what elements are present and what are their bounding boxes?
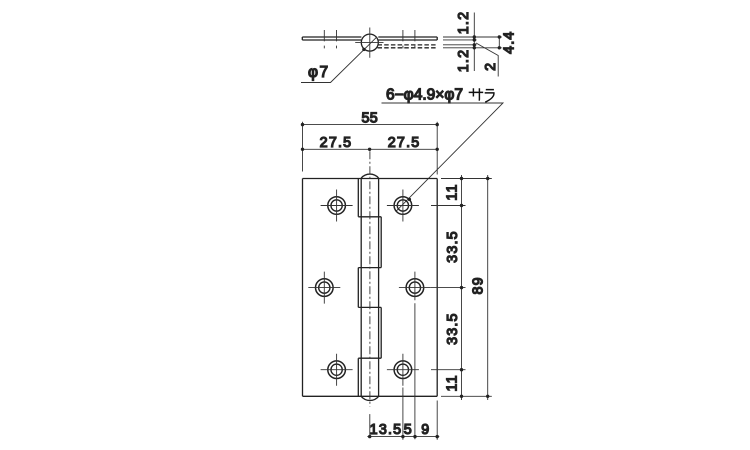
- text 27.5 right: [388, 135, 421, 151]
- dimension line 4.4: [498, 37, 500, 48]
- bottom extension mid hole col: [414, 303, 416, 439]
- svg-text:13.5: 13.5: [370, 422, 403, 438]
- knuckle right strips: [380, 217, 382, 358]
- katakana sa: [469, 88, 484, 100]
- dots 27.5: [301, 148, 439, 151]
- chain dots: [460, 177, 463, 398]
- text 33.5 upper: [445, 230, 461, 263]
- text 9: [421, 422, 430, 438]
- svg-text:1.2: 1.2: [456, 11, 472, 34]
- knuckle joints: [358, 217, 381, 358]
- crosshair bottom-left: [321, 354, 353, 386]
- dimension line 89: [487, 175, 489, 400]
- hole bottom-left: [328, 361, 346, 379]
- top view: left leaf top surface: [302, 37, 361, 40]
- svg-text:5: 5: [404, 422, 413, 438]
- svg-text:1.2: 1.2: [456, 49, 472, 72]
- dimension line 55: [303, 124, 438, 126]
- hole bottom-right: [394, 361, 412, 379]
- top view: knuckle centermark cross: [355, 28, 383, 58]
- bottom dimension line: [367, 436, 439, 438]
- width dim extension right: [436, 122, 438, 175]
- knuckle barrel bottom cap: [361, 396, 378, 400]
- crosshair mid-right: [399, 272, 431, 301]
- crosshair bottom-right: [387, 354, 419, 386]
- leader for dim 2: [476, 43, 498, 77]
- svg-text:6−φ4.9×φ7: 6−φ4.9×φ7: [386, 87, 463, 104]
- top view: right leaf top surface: [378, 37, 437, 40]
- bottom dots: [368, 435, 439, 438]
- dimension dots 4.4: [498, 35, 501, 49]
- front view: plate outline: [303, 179, 438, 397]
- svg-text:11: 11: [444, 183, 460, 200]
- crosshair top-right: [387, 190, 419, 222]
- text 1.2 upper: [456, 11, 472, 34]
- top view: hidden lower leaf (dashed): [378, 45, 438, 48]
- hole mid-left: [316, 279, 334, 297]
- svg-text:4.4: 4.4: [502, 30, 518, 53]
- svg-text:27.5: 27.5: [320, 135, 353, 151]
- text 89: [471, 276, 487, 294]
- text 33.5 lower: [445, 312, 461, 345]
- text 13.5: [370, 422, 403, 438]
- top view: knuckle circle: [361, 34, 378, 51]
- katakana ra: [485, 90, 494, 103]
- leader dot phi7: [362, 48, 365, 51]
- top view: hole center ticks: [324, 30, 415, 48]
- right extensions rows: [431, 179, 492, 397]
- hole mid-right: [406, 279, 424, 297]
- leader phi7: [301, 37, 377, 83]
- chain dimension line 11/33.5: [461, 175, 463, 400]
- pin centerline bottom extension: [369, 414, 371, 437]
- text 4.4: [502, 30, 518, 53]
- svg-text:33.5: 33.5: [445, 312, 461, 345]
- knuckle left strips: [357, 179, 359, 397]
- text 55: [361, 110, 378, 126]
- pin centerline: [369, 151, 371, 406]
- text 11 bottom: [444, 374, 460, 391]
- leader dot hole spec: [408, 198, 411, 201]
- bottom extension right edge: [436, 401, 438, 440]
- text 5: [404, 422, 413, 438]
- dots 89: [486, 177, 489, 398]
- text 2: [483, 62, 499, 71]
- svg-text:11: 11: [444, 374, 460, 391]
- label phi7: [308, 64, 330, 81]
- text 1.2 lower: [456, 49, 472, 72]
- svg-text:27.5: 27.5: [388, 135, 421, 151]
- svg-text:φ7: φ7: [308, 64, 330, 81]
- dimension dots 1.2: [473, 35, 476, 49]
- bottom extension hole col right: [402, 388, 404, 440]
- label 6-phi4.9x phi7 sara: [386, 87, 463, 104]
- svg-text:33.5: 33.5: [445, 230, 461, 263]
- knuckle barrel top cap: [361, 174, 378, 178]
- knuckle barrel sides: [361, 178, 378, 397]
- hole top-left: [328, 197, 346, 215]
- hole top-right: [394, 197, 412, 215]
- svg-text:55: 55: [361, 110, 378, 126]
- dots 55: [301, 123, 439, 126]
- thickness extension lines: [443, 37, 502, 48]
- text 11 top: [444, 183, 460, 200]
- svg-text:2: 2: [483, 62, 499, 71]
- dimension line 1.2/1.2 vertical: [473, 13, 475, 72]
- dimension line 27.5: [303, 148, 438, 150]
- crosshair mid-left: [308, 272, 340, 304]
- text 27.5 left: [320, 135, 353, 151]
- crosshair top-left: [321, 190, 353, 222]
- svg-text:9: 9: [421, 422, 430, 438]
- leader for hole spec: [382, 103, 504, 211]
- svg-text:89: 89: [471, 276, 487, 294]
- width dim extension left: [302, 122, 304, 172]
